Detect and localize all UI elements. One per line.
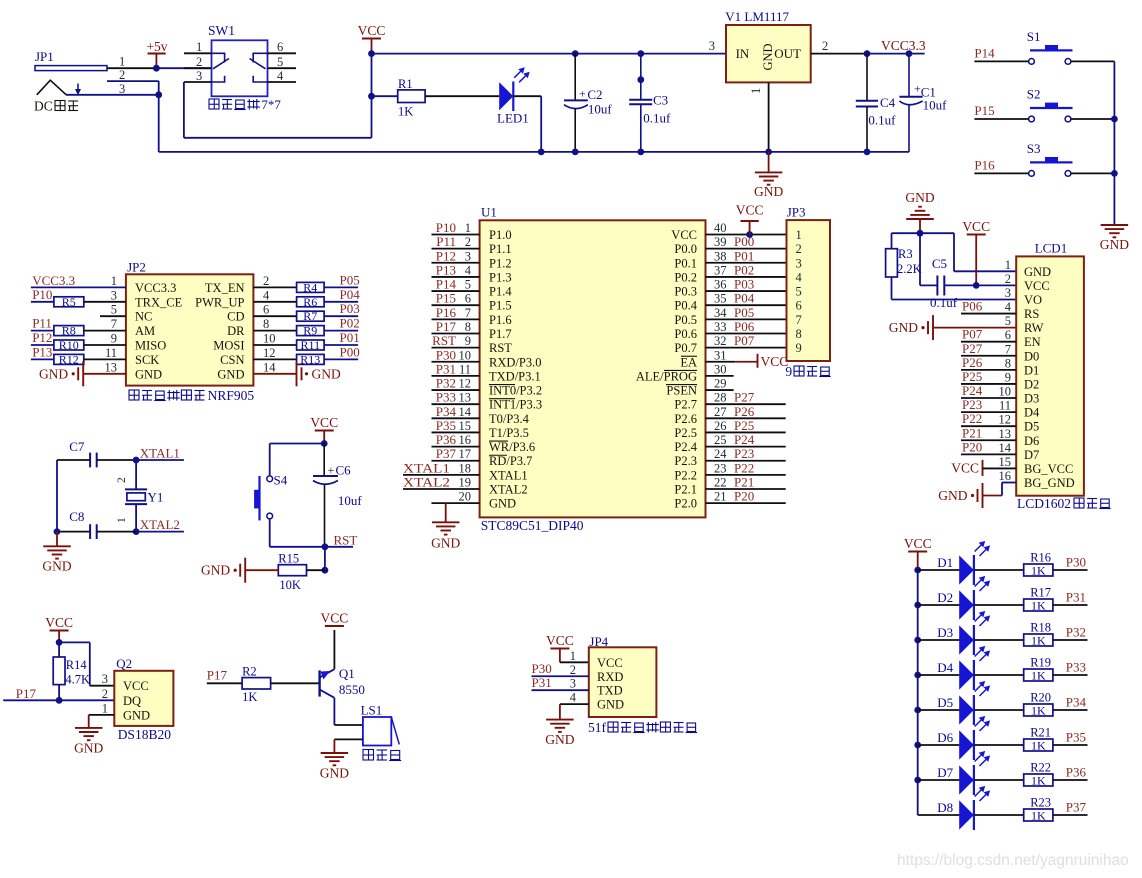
svg-text:P25: P25 bbox=[734, 418, 754, 433]
svg-text:Q1: Q1 bbox=[339, 666, 355, 681]
svg-text:LED1: LED1 bbox=[497, 111, 529, 126]
svg-text:VCC: VCC bbox=[45, 615, 73, 630]
svg-text:5: 5 bbox=[111, 303, 117, 317]
svg-text:2: 2 bbox=[263, 274, 269, 288]
svg-text:LCD1602: LCD1602 bbox=[1017, 496, 1071, 511]
svg-text:P36: P36 bbox=[436, 432, 457, 447]
resistor R4 bbox=[253, 286, 296, 288]
ground under LM1117 bbox=[768, 152, 770, 173]
junction VCC rail bbox=[368, 50, 375, 57]
U1 pin 6 P1.5 bbox=[432, 304, 480, 306]
svg-text:10K: 10K bbox=[279, 578, 301, 592]
U1 pin 39 P0.0 bbox=[706, 248, 787, 250]
U1 pin 15 T1/P3.5 bbox=[432, 431, 480, 433]
svg-text:4: 4 bbox=[277, 69, 284, 83]
power VCC at U1 pin 31 (EA) bbox=[735, 361, 757, 363]
svg-text:2: 2 bbox=[822, 39, 828, 53]
svg-text:CD: CD bbox=[227, 310, 244, 324]
svg-text:4.7K: 4.7K bbox=[65, 673, 90, 687]
svg-text:XTAL1: XTAL1 bbox=[403, 460, 450, 475]
label 无线传输模块NRF905 bbox=[129, 390, 139, 400]
svg-text:P35: P35 bbox=[1066, 730, 1086, 745]
svg-text:4: 4 bbox=[1005, 300, 1012, 314]
svg-text:NRF905: NRF905 bbox=[208, 388, 255, 403]
svg-text:Q2: Q2 bbox=[116, 656, 132, 671]
svg-text:P2.2: P2.2 bbox=[674, 468, 697, 482]
svg-text:1K: 1K bbox=[398, 105, 413, 119]
svg-text:1: 1 bbox=[116, 517, 128, 523]
svg-text:D5: D5 bbox=[1024, 420, 1039, 434]
svg-text:GND: GND bbox=[545, 732, 574, 747]
svg-text:GND: GND bbox=[74, 741, 103, 756]
wire VCC to S4 bbox=[270, 443, 325, 445]
U1 pin 16 WR/P3.6 bbox=[432, 446, 480, 448]
svg-text:R7: R7 bbox=[303, 309, 317, 323]
svg-text:2: 2 bbox=[119, 68, 125, 82]
junction R1 tap bbox=[368, 93, 375, 100]
svg-text:JP2: JP2 bbox=[127, 260, 146, 275]
capacitor C2 (electrolytic 10uf) bbox=[572, 50, 579, 57]
svg-text:SCK: SCK bbox=[135, 353, 159, 367]
resistor R9 bbox=[253, 330, 296, 332]
wire top rail bbox=[372, 53, 727, 55]
svg-text:DQ: DQ bbox=[123, 694, 141, 708]
ground for crystal bbox=[56, 532, 58, 547]
U1 pin 34 P0.5 bbox=[706, 318, 787, 320]
svg-text:P11: P11 bbox=[32, 316, 52, 331]
svg-text:C8: C8 bbox=[69, 509, 84, 524]
svg-text:P07: P07 bbox=[734, 333, 755, 348]
svg-text:5: 5 bbox=[277, 55, 283, 69]
svg-text:R11: R11 bbox=[301, 338, 321, 352]
svg-text:3: 3 bbox=[1005, 286, 1011, 300]
capacitor C5 0.1uf bbox=[919, 233, 921, 285]
svg-text:S1: S1 bbox=[1027, 29, 1041, 44]
svg-text:1K: 1K bbox=[1031, 808, 1046, 822]
U1 pin 10 RXD/P3.0 bbox=[432, 361, 480, 363]
wire P17 to R2 bbox=[207, 682, 242, 684]
svg-text:VCC: VCC bbox=[123, 679, 149, 693]
svg-text:P14: P14 bbox=[436, 277, 457, 292]
svg-text:MISO: MISO bbox=[135, 339, 166, 353]
svg-text:RD/P3.7: RD/P3.7 bbox=[489, 454, 532, 468]
U1 pin 12 INT0/P3.2 bbox=[432, 389, 480, 391]
svg-text:12: 12 bbox=[999, 413, 1012, 427]
wire VCC to JP4 pin1 bbox=[560, 661, 589, 663]
svg-text:GND: GND bbox=[761, 43, 775, 70]
svg-text:17: 17 bbox=[459, 447, 472, 461]
svg-text:RST: RST bbox=[334, 533, 358, 548]
junction C1 tap bbox=[906, 50, 913, 57]
resistor R11 bbox=[253, 344, 296, 346]
svg-text:0.1uf: 0.1uf bbox=[868, 113, 896, 128]
svg-text:Y1: Y1 bbox=[148, 490, 164, 505]
svg-text:S2: S2 bbox=[1027, 87, 1041, 102]
U1 pin 30 ALE/PROG bbox=[706, 375, 734, 377]
resistor R14 4.7K (vertical) bbox=[58, 642, 60, 657]
svg-text:STC89C51_DIP40: STC89C51_DIP40 bbox=[481, 518, 584, 533]
svg-text:14: 14 bbox=[263, 360, 276, 374]
wire crystal left branch bbox=[56, 460, 58, 532]
svg-text:C3: C3 bbox=[653, 93, 668, 108]
ground for Q2 bbox=[75, 727, 103, 729]
U1 pin 9 RST bbox=[432, 347, 480, 349]
svg-text:P02: P02 bbox=[340, 316, 360, 331]
svg-text:P21: P21 bbox=[734, 475, 754, 490]
svg-text:VCC: VCC bbox=[736, 203, 764, 218]
svg-text:GND: GND bbox=[135, 367, 162, 381]
svg-text:XTAL1: XTAL1 bbox=[140, 446, 180, 461]
svg-text:24: 24 bbox=[714, 447, 727, 461]
svg-text:P1.7: P1.7 bbox=[489, 327, 512, 341]
svg-text:RST: RST bbox=[489, 341, 512, 355]
svg-text:R13: R13 bbox=[300, 352, 320, 366]
svg-text:P2.4: P2.4 bbox=[674, 440, 697, 454]
svg-text:1: 1 bbox=[749, 88, 763, 94]
resistor R8 bbox=[31, 330, 54, 332]
wire R3 bottom to LCD pin3 VO bbox=[892, 299, 1017, 301]
svg-text:31: 31 bbox=[714, 348, 727, 362]
svg-text:P1.1: P1.1 bbox=[489, 242, 512, 256]
svg-text:12: 12 bbox=[459, 377, 472, 391]
svg-text:GND: GND bbox=[889, 320, 918, 335]
U1 pin 1 P1.0 bbox=[432, 234, 480, 236]
svg-text:VCC: VCC bbox=[597, 656, 623, 670]
svg-text:VO: VO bbox=[1024, 293, 1042, 307]
resistor R7 bbox=[253, 315, 296, 317]
svg-text:33: 33 bbox=[714, 320, 727, 334]
svg-text:VCC3.3: VCC3.3 bbox=[32, 273, 75, 288]
svg-text:8: 8 bbox=[796, 327, 802, 341]
svg-text:P32: P32 bbox=[436, 376, 456, 391]
LED D2 bbox=[914, 602, 921, 609]
svg-text:P03: P03 bbox=[340, 301, 360, 316]
svg-text:P2.6: P2.6 bbox=[674, 412, 697, 426]
svg-text:P17: P17 bbox=[16, 686, 37, 701]
svg-text:1: 1 bbox=[196, 40, 202, 54]
U1 pin 25 P2.4 bbox=[706, 446, 786, 448]
svg-text:S3: S3 bbox=[1027, 141, 1041, 156]
wire R2 to Q1 base bbox=[271, 682, 320, 684]
ground JP2 pin13 bbox=[72, 372, 75, 375]
svg-text:TRX_CE: TRX_CE bbox=[135, 295, 183, 309]
svg-text:R15: R15 bbox=[278, 552, 299, 566]
svg-text:10uf: 10uf bbox=[338, 493, 363, 508]
svg-text:PSEN: PSEN bbox=[666, 384, 697, 398]
svg-text:LCD1: LCD1 bbox=[1035, 241, 1068, 256]
svg-text:https://blog.csdn.net/yagnruin: https://blog.csdn.net/yagnruinihao bbox=[897, 852, 1129, 869]
junction S3 bus bbox=[1111, 170, 1118, 177]
switch S4 bbox=[267, 476, 273, 482]
svg-text:22: 22 bbox=[714, 476, 727, 490]
svg-text:DC: DC bbox=[34, 99, 53, 114]
svg-text:2: 2 bbox=[196, 55, 202, 69]
svg-text:16: 16 bbox=[459, 433, 472, 447]
svg-text:VCC: VCC bbox=[761, 354, 789, 369]
svg-text:10: 10 bbox=[263, 332, 276, 346]
svg-text:P00: P00 bbox=[340, 344, 360, 359]
svg-text:7: 7 bbox=[796, 313, 802, 327]
svg-text:P01: P01 bbox=[340, 330, 360, 345]
svg-text:XTAL2: XTAL2 bbox=[403, 475, 450, 490]
svg-text:DR: DR bbox=[227, 324, 245, 338]
U1 pin 18 XTAL1 bbox=[403, 474, 480, 476]
svg-text:P33: P33 bbox=[436, 390, 456, 405]
svg-text:6: 6 bbox=[465, 292, 471, 306]
svg-text:38: 38 bbox=[714, 249, 727, 263]
svg-text:P37: P37 bbox=[436, 446, 457, 461]
wire RST to R15 bbox=[324, 547, 326, 570]
svg-text:9: 9 bbox=[465, 334, 471, 348]
svg-text:10: 10 bbox=[459, 348, 472, 362]
SW1 internal contacts bbox=[212, 53, 225, 62]
svg-text:P22: P22 bbox=[734, 460, 754, 475]
svg-text:3: 3 bbox=[709, 39, 715, 53]
wire Q1 collector to LS1 bbox=[333, 698, 335, 725]
svg-text:15: 15 bbox=[459, 419, 472, 433]
svg-text:IN: IN bbox=[736, 46, 750, 61]
wire LS1 second pin to ground bbox=[334, 738, 363, 740]
wire S2 to gnd bus bbox=[1071, 118, 1115, 120]
svg-text:6: 6 bbox=[796, 299, 802, 313]
LED D5 bbox=[914, 707, 921, 714]
svg-text:EA: EA bbox=[680, 355, 697, 369]
svg-text:P23: P23 bbox=[962, 397, 982, 412]
svg-text:EN: EN bbox=[1024, 335, 1041, 349]
wire LED bus vertical bbox=[917, 570, 919, 815]
U1 pin 21 P2.0 bbox=[706, 502, 786, 504]
svg-text:GND: GND bbox=[905, 190, 934, 205]
svg-text:P14: P14 bbox=[974, 45, 995, 60]
svg-text:P0.6: P0.6 bbox=[674, 327, 697, 341]
svg-text:34: 34 bbox=[714, 306, 727, 320]
svg-text:2: 2 bbox=[465, 235, 471, 249]
wire R1 to LED1 bbox=[425, 95, 499, 97]
svg-text:13: 13 bbox=[105, 360, 118, 374]
svg-text:T0/P3.4: T0/P3.4 bbox=[489, 412, 530, 426]
svg-text:37: 37 bbox=[714, 263, 727, 277]
svg-text:TXD/P3.1: TXD/P3.1 bbox=[489, 369, 541, 383]
svg-text:P31: P31 bbox=[1066, 590, 1086, 605]
svg-text:40: 40 bbox=[714, 221, 727, 235]
U1 pin 27 P2.6 bbox=[706, 417, 786, 419]
U1 pin 26 P2.5 bbox=[706, 431, 786, 433]
svg-text:4: 4 bbox=[570, 691, 577, 705]
svg-text:D1: D1 bbox=[1024, 363, 1039, 377]
svg-text:8550: 8550 bbox=[339, 682, 365, 697]
svg-text:1K: 1K bbox=[242, 690, 257, 704]
svg-text:P34: P34 bbox=[436, 404, 457, 419]
LED D8 bbox=[918, 814, 960, 816]
svg-text:P02: P02 bbox=[734, 262, 754, 277]
svg-text:7: 7 bbox=[465, 306, 471, 320]
junction RST node bbox=[322, 543, 329, 550]
resistor R1 bbox=[372, 95, 398, 97]
svg-text:INT0/P3.2: INT0/P3.2 bbox=[489, 384, 542, 398]
svg-text:1K: 1K bbox=[1031, 738, 1046, 752]
svg-text:GND: GND bbox=[39, 366, 68, 381]
svg-text:P15: P15 bbox=[436, 291, 456, 306]
svg-text:10: 10 bbox=[999, 385, 1012, 399]
svg-text:GND: GND bbox=[1100, 237, 1129, 252]
ground for JP4 bbox=[546, 719, 574, 721]
svg-text:P25: P25 bbox=[962, 369, 982, 384]
junction pin1/bus bbox=[765, 149, 772, 156]
svg-text:39: 39 bbox=[714, 235, 727, 249]
wire SW1 pin3 to VCC rail bbox=[183, 82, 185, 138]
ground for R15 bbox=[234, 569, 237, 572]
svg-text:8: 8 bbox=[263, 317, 269, 331]
svg-text:51f: 51f bbox=[588, 720, 607, 735]
wire VCC to Q2 VCC pin bbox=[59, 641, 90, 643]
svg-text:21: 21 bbox=[714, 490, 727, 504]
svg-text:D7: D7 bbox=[937, 765, 953, 780]
wire to LCD pin1 bbox=[954, 270, 1016, 272]
svg-text:GND: GND bbox=[431, 536, 460, 551]
svg-text:P2.5: P2.5 bbox=[674, 426, 697, 440]
svg-text:1K: 1K bbox=[1031, 773, 1046, 787]
svg-text:R2: R2 bbox=[242, 665, 257, 679]
svg-text:P0.0: P0.0 bbox=[674, 242, 697, 256]
svg-text:GND: GND bbox=[312, 366, 341, 381]
svg-text:6: 6 bbox=[1005, 328, 1011, 342]
wire gnd node bbox=[892, 232, 955, 234]
svg-text:P05: P05 bbox=[340, 272, 360, 287]
svg-text:9: 9 bbox=[111, 332, 117, 346]
svg-text:TXD: TXD bbox=[597, 684, 623, 698]
svg-text:RXD/P3.0: RXD/P3.0 bbox=[489, 355, 541, 369]
svg-text:GND: GND bbox=[1024, 265, 1051, 279]
svg-text:16: 16 bbox=[999, 469, 1012, 483]
svg-text:P20: P20 bbox=[734, 489, 754, 504]
svg-text:TX_EN: TX_EN bbox=[205, 281, 245, 295]
svg-text:T1/P3.5: T1/P3.5 bbox=[489, 426, 529, 440]
wire P16 to S3 bbox=[974, 172, 1028, 174]
U1 pin 24 P2.3 bbox=[706, 460, 786, 462]
svg-text:32: 32 bbox=[714, 334, 727, 348]
svg-text:P15: P15 bbox=[974, 103, 994, 118]
ground at U1 pin 20 bbox=[445, 503, 447, 522]
wire bottom ground bus bbox=[159, 151, 909, 153]
svg-text:GND: GND bbox=[597, 698, 624, 712]
svg-text:19: 19 bbox=[459, 476, 472, 490]
svg-text:GND: GND bbox=[489, 497, 516, 511]
ground for buzzer bbox=[321, 752, 349, 754]
U1 pin 11 TXD/P3.1 bbox=[432, 375, 480, 377]
wire S3 to gnd bus bbox=[1071, 172, 1115, 174]
U1 pin 35 P0.4 bbox=[706, 304, 787, 306]
svg-text:VCC: VCC bbox=[358, 23, 386, 38]
junction R3 top bbox=[917, 230, 924, 237]
svg-text:VCC: VCC bbox=[951, 460, 979, 475]
svg-text:P1.4: P1.4 bbox=[489, 285, 512, 299]
svg-text:14: 14 bbox=[459, 405, 472, 419]
resistor R3 2.2K (vertical) bbox=[891, 233, 893, 249]
svg-text:P2.0: P2.0 bbox=[674, 497, 697, 511]
svg-text:P16: P16 bbox=[974, 157, 995, 172]
svg-text:23: 23 bbox=[714, 461, 727, 475]
svg-text:10uf: 10uf bbox=[588, 102, 613, 117]
LED LED1 bbox=[499, 82, 513, 110]
svg-text:1: 1 bbox=[1005, 258, 1011, 272]
wire JP4 pin4 to ground bbox=[560, 703, 589, 705]
svg-text:R1: R1 bbox=[398, 77, 413, 91]
svg-text:P06: P06 bbox=[734, 319, 755, 334]
svg-text:P16: P16 bbox=[436, 305, 457, 320]
arrow marker on pin3 wire bbox=[77, 84, 79, 91]
svg-text:VCC: VCC bbox=[310, 415, 338, 430]
svg-text:C2: C2 bbox=[587, 87, 602, 102]
svg-text:9: 9 bbox=[796, 341, 802, 355]
svg-text:P2.7: P2.7 bbox=[674, 398, 697, 412]
svg-text:CSN: CSN bbox=[220, 353, 244, 367]
svg-text:GND: GND bbox=[320, 766, 349, 781]
svg-text:P2.1: P2.1 bbox=[674, 483, 697, 497]
svg-text:P0.4: P0.4 bbox=[674, 299, 697, 313]
svg-text:11: 11 bbox=[459, 362, 471, 376]
svg-text:P0.5: P0.5 bbox=[674, 313, 697, 327]
svg-text:GND: GND bbox=[217, 367, 244, 381]
svg-text:1: 1 bbox=[119, 55, 125, 69]
svg-text:R8: R8 bbox=[62, 324, 76, 338]
svg-text:2: 2 bbox=[796, 242, 802, 256]
svg-text:9: 9 bbox=[1005, 370, 1011, 384]
capacitor C6 (electrolytic 10uf) bbox=[323, 444, 325, 477]
svg-text:2.2K: 2.2K bbox=[897, 262, 922, 276]
svg-text:D3: D3 bbox=[937, 625, 953, 640]
svg-text:VCC3.3: VCC3.3 bbox=[135, 281, 176, 295]
svg-text:P36: P36 bbox=[1066, 765, 1087, 780]
svg-text:P1.0: P1.0 bbox=[489, 228, 512, 242]
label 自锁开关7*7 bbox=[209, 99, 219, 109]
U1 pin 40 VCC bbox=[706, 234, 787, 236]
svg-text:2: 2 bbox=[1005, 272, 1011, 286]
svg-text:P37: P37 bbox=[1066, 800, 1087, 815]
svg-text:S4: S4 bbox=[274, 473, 288, 488]
svg-text:RXD: RXD bbox=[597, 670, 623, 684]
svg-text:D3: D3 bbox=[1024, 392, 1039, 406]
svg-text:30: 30 bbox=[714, 362, 727, 376]
svg-text:25: 25 bbox=[714, 433, 727, 447]
svg-text:D8: D8 bbox=[937, 800, 953, 815]
svg-text:1K: 1K bbox=[1031, 633, 1046, 647]
U1 pin 33 P0.6 bbox=[706, 332, 787, 334]
svg-text:P0.1: P0.1 bbox=[674, 256, 697, 270]
ground above R3 bbox=[918, 206, 922, 208]
svg-text:P23: P23 bbox=[734, 446, 754, 461]
svg-text:BG_VCC: BG_VCC bbox=[1024, 462, 1073, 476]
svg-text:P31: P31 bbox=[436, 361, 456, 376]
svg-text:D2: D2 bbox=[1024, 377, 1039, 391]
svg-text:18: 18 bbox=[459, 461, 472, 475]
svg-text:D1: D1 bbox=[937, 555, 953, 570]
svg-text:P22: P22 bbox=[962, 411, 982, 426]
U1 pin 13 INT1/P3.3 bbox=[432, 403, 480, 405]
junction +5v/pin1 bbox=[153, 65, 160, 72]
svg-text:8: 8 bbox=[1005, 356, 1011, 370]
svg-text:12: 12 bbox=[263, 346, 276, 360]
svg-text:JP3: JP3 bbox=[787, 205, 806, 220]
wire pin2 down to bottom bus bbox=[158, 95, 160, 152]
svg-text:P10: P10 bbox=[32, 287, 52, 302]
crystal Y1 bbox=[135, 460, 137, 489]
svg-text:D6: D6 bbox=[1024, 434, 1039, 448]
svg-text:INT1/P3.3: INT1/P3.3 bbox=[489, 398, 542, 412]
junction DQ node bbox=[56, 697, 63, 704]
svg-text:C5: C5 bbox=[932, 256, 947, 271]
svg-text:WR/P3.6: WR/P3.6 bbox=[489, 440, 535, 454]
svg-text:P20: P20 bbox=[962, 439, 982, 454]
